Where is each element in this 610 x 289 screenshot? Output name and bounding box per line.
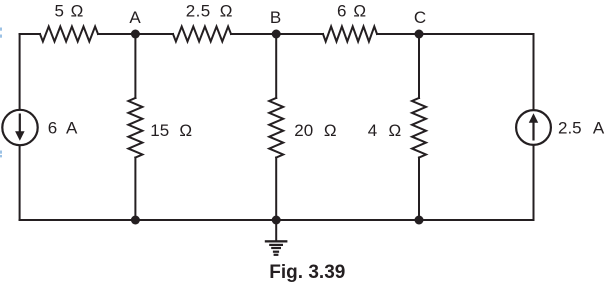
- ground bar 1: [265, 240, 288, 242]
- wire 4ohm to bottom rail: [418, 158, 420, 221]
- wire bottom rail: [20, 219, 534, 221]
- node B junction dot: [272, 30, 281, 39]
- node C junction dot: [415, 30, 424, 39]
- ground bar 5: [274, 254, 279, 256]
- wire top rail node B to 6ohm: [276, 33, 323, 35]
- current source I2 circle: [516, 110, 551, 145]
- wire right branch lower: [533, 146, 535, 221]
- wire top rail left segment: [20, 33, 40, 35]
- svg-text:20 Ω: 20 Ω: [294, 121, 336, 140]
- page-edge blue mark 1: [0, 28, 2, 31]
- resistor R 6ohm: [323, 27, 377, 42]
- wire top rail node A to 2.5ohm: [135, 33, 173, 35]
- wire node B down to 20ohm: [275, 34, 277, 98]
- bottom junction dot under B: [272, 216, 281, 225]
- resistor R 20ohm: [269, 98, 283, 158]
- wire node A down to 15ohm: [134, 34, 136, 98]
- wire left branch upper: [19, 34, 21, 110]
- wire top rail 2.5ohm to node B: [231, 33, 276, 35]
- resistor R 2.5ohm: [173, 27, 231, 42]
- bottom junction dot under C: [415, 216, 424, 225]
- page-edge blue mark 4: [0, 155, 2, 157]
- node A junction dot: [131, 30, 140, 39]
- resistor R 15ohm: [128, 98, 142, 158]
- resistor R 5ohm: [40, 27, 98, 42]
- svg-text:C: C: [414, 8, 426, 27]
- wire node C down to 4ohm: [418, 34, 420, 98]
- ground bar 4: [273, 251, 279, 253]
- svg-text:5 Ω: 5 Ω: [55, 2, 84, 21]
- wire left branch lower: [19, 146, 21, 221]
- svg-text:B: B: [270, 8, 281, 27]
- wire 20ohm to bottom rail: [275, 158, 277, 221]
- svg-text:Fig. 3.39: Fig. 3.39: [269, 262, 345, 283]
- wire top rail node C to right corner: [419, 33, 534, 35]
- wire top rail segment to node A: [98, 33, 135, 35]
- page-edge blue mark 2: [0, 35, 2, 38]
- page-edge blue mark 3: [0, 151, 2, 154]
- wire top rail 6ohm to node C: [377, 33, 419, 35]
- ground stem: [275, 220, 277, 241]
- ground bar 2: [269, 244, 283, 246]
- current source I1 circle: [2, 110, 37, 145]
- svg-text:6 A: 6 A: [48, 118, 78, 137]
- ground bar 3: [271, 247, 281, 249]
- svg-text:6 Ω: 6 Ω: [337, 2, 366, 21]
- wire 15ohm to bottom rail: [134, 158, 136, 221]
- wire right branch upper: [533, 34, 535, 110]
- svg-text:A: A: [129, 8, 141, 27]
- svg-text:2.5 Ω: 2.5 Ω: [186, 2, 233, 21]
- svg-text:15 Ω: 15 Ω: [150, 121, 192, 140]
- bottom junction dot under A: [131, 216, 140, 225]
- current source I1 arrow (down): [19, 114, 21, 133]
- resistor R 4ohm: [412, 98, 426, 158]
- svg-text:4 Ω: 4 Ω: [368, 121, 401, 140]
- current source I2 arrow (up): [532, 123, 534, 141]
- svg-text:2.5 A: 2.5 A: [558, 118, 605, 137]
